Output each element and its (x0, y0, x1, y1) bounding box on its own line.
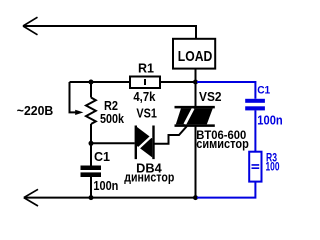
svg-text:VS2: VS2 (199, 89, 222, 104)
svg-text:~220В: ~220В (17, 104, 54, 118)
svg-text:100n: 100n (93, 179, 118, 193)
svg-text:100: 100 (266, 161, 280, 173)
svg-text:LOAD: LOAD (178, 48, 213, 65)
svg-text:динистор: динистор (124, 171, 174, 185)
svg-text:C1: C1 (257, 85, 270, 97)
svg-text:500k: 500k (100, 112, 124, 126)
svg-text:C1: C1 (94, 150, 110, 164)
svg-text:100n: 100n (257, 114, 282, 128)
svg-text:R2: R2 (104, 99, 118, 113)
svg-text:4,7k: 4,7k (133, 90, 155, 104)
svg-text:симистор: симистор (196, 137, 249, 151)
svg-text:VS1: VS1 (136, 107, 157, 121)
svg-text:R1: R1 (138, 61, 154, 75)
